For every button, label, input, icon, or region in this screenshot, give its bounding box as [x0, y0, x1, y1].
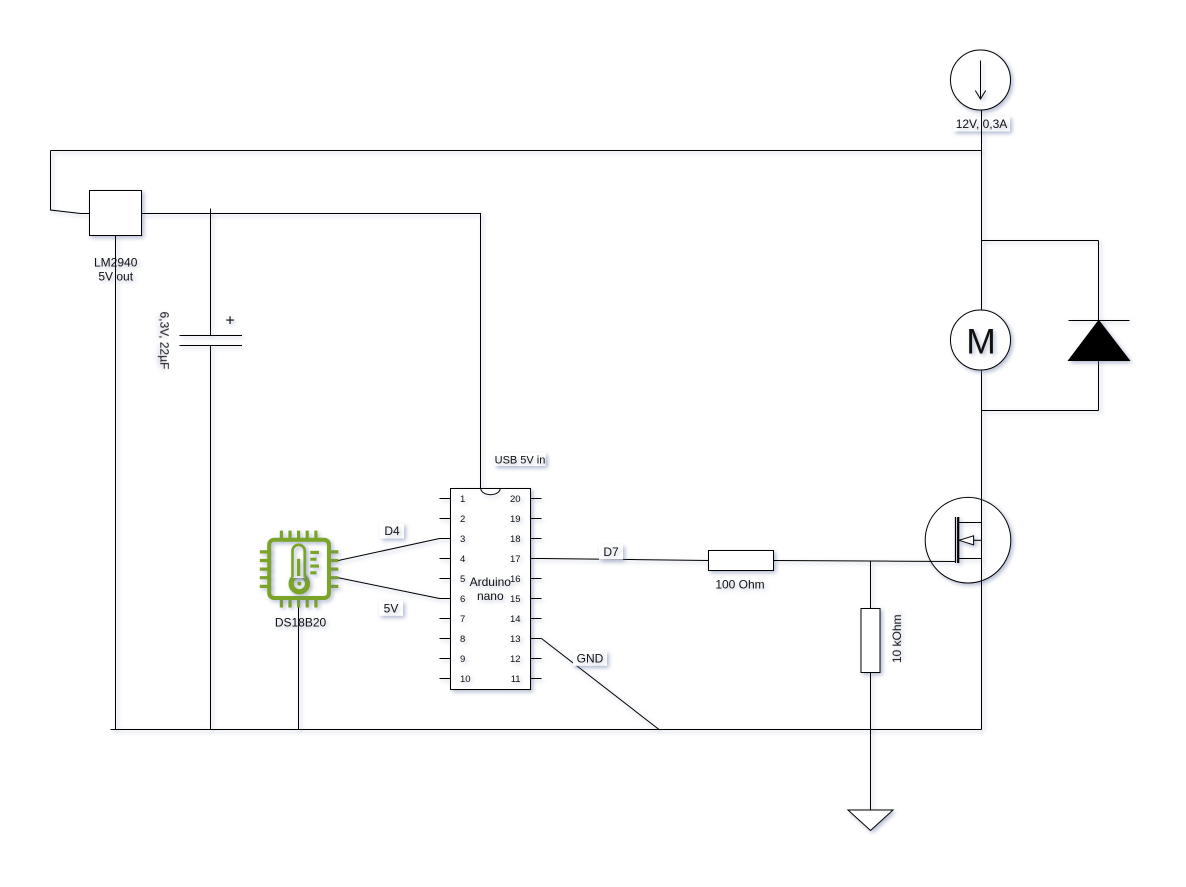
label USB 5V in [494, 453, 545, 467]
MOSFET body arrow [959, 536, 974, 545]
diode D1 cathode bar [1069, 320, 1130, 322]
pins right 11-20 [531, 499, 542, 679]
svg-text:13: 13 [510, 634, 521, 645]
svg-text:10 kOhm: 10 kOhm [890, 614, 904, 663]
wire regulator output to Arduino top [142, 214, 481, 489]
wire resistor to MOSFET gate [774, 561, 957, 562]
svg-text:8: 8 [460, 634, 465, 645]
wire motor loop bottom [982, 410, 1099, 412]
IC U1 Arduino nano body [451, 489, 531, 690]
chip body [269, 540, 329, 598]
wire DS18B20 ground drop [298, 608, 300, 730]
wire sensor vcc to pin 6 (5V) [338, 578, 439, 599]
svg-text:Arduino: Arduino [470, 575, 512, 589]
MOSFET gate bar [955, 517, 957, 563]
sensor DS18B20 icon [260, 531, 339, 608]
MOSFET source stub [958, 558, 981, 560]
wire left drop to regulator input [51, 151, 90, 214]
resistor R1 100 Ohm [709, 551, 774, 571]
svg-text:D4: D4 [384, 524, 400, 538]
label D4 [380, 524, 404, 539]
svg-text:12: 12 [510, 654, 521, 665]
MOSFET body stub [974, 539, 982, 541]
wire sensor data to pin 3 (D4) [338, 539, 439, 561]
wire main vertical 12V to motor [981, 110, 983, 310]
regulator LM2940 box [90, 191, 142, 236]
wire motor bottom through MOSFET to bottom rail [981, 371, 983, 730]
svg-text:6,3V, 22µF: 6,3V, 22µF [157, 312, 171, 370]
svg-text:10: 10 [460, 674, 471, 685]
thermometer mercury column [297, 559, 300, 576]
svg-text:19: 19 [510, 514, 521, 525]
pin numbers left [460, 494, 471, 685]
chip legs top [281, 531, 316, 540]
wire motor loop top [982, 240, 1099, 242]
svg-text:100 Ohm: 100 Ohm [715, 578, 764, 592]
svg-text:D7: D7 [603, 545, 619, 559]
wire regulator ground down to bottom rail [115, 236, 117, 730]
thermometer tube outline [293, 545, 305, 578]
svg-text:14: 14 [510, 614, 521, 625]
svg-text:16: 16 [510, 574, 521, 585]
MOSFET drain stub [958, 522, 981, 524]
svg-text:+: + [225, 313, 234, 330]
svg-text:11: 11 [511, 674, 521, 685]
diode D1 triangle [1069, 321, 1130, 361]
ground symbol [848, 810, 893, 831]
wire pulldown to ground symbol [870, 673, 872, 811]
MOSFET Q1 body circle [925, 497, 1011, 583]
svg-text:17: 17 [510, 554, 521, 565]
svg-text:5V: 5V [384, 602, 399, 616]
svg-text:4: 4 [460, 554, 465, 565]
wire pin17 to resistor (D7 net) [542, 559, 709, 561]
svg-text:15: 15 [510, 594, 521, 605]
thermometer tube interior [293, 545, 305, 578]
svg-text:9: 9 [460, 654, 465, 665]
svg-text:1: 1 [460, 494, 465, 505]
current source 12V supply [951, 50, 1011, 110]
wire capacitor top lead [210, 209, 212, 336]
label 5V [379, 601, 403, 616]
IC notch [481, 489, 500, 495]
wire pin13 to ground rail (GND net) [542, 639, 660, 730]
chip legs left [260, 552, 270, 587]
pins left 1-10 [440, 499, 451, 679]
motor M1 circle [951, 310, 1011, 370]
scale marks [310, 552, 319, 572]
chip legs right [329, 552, 339, 587]
svg-text:3: 3 [460, 534, 465, 545]
svg-text:5V out: 5V out [98, 270, 133, 284]
label 12V, 0,3A [953, 117, 1010, 132]
pin numbers right [510, 494, 521, 685]
wire capacitor bottom lead [210, 346, 212, 730]
label GND [573, 651, 607, 666]
svg-text:20: 20 [510, 494, 521, 505]
chip legs bottom [281, 598, 316, 608]
capacitor C1 plates [180, 335, 243, 337]
thermometer bulb dot [297, 582, 301, 586]
wire bottom ground rail [111, 729, 982, 731]
current source arrow [975, 61, 985, 100]
svg-text:7: 7 [460, 614, 465, 625]
svg-text:USB 5V in: USB 5V in [495, 454, 546, 466]
resistor R2 10 kOhm [861, 609, 880, 673]
wire diode branch vertical [1098, 241, 1100, 411]
svg-text:5: 5 [460, 574, 465, 585]
svg-text:6: 6 [460, 594, 465, 605]
svg-text:M: M [966, 322, 996, 362]
svg-text:2: 2 [460, 514, 465, 525]
wire top rail (12V) [51, 150, 982, 152]
svg-text:nano: nano [477, 589, 504, 603]
label D7 [599, 545, 623, 560]
svg-text:GND: GND [577, 652, 604, 666]
svg-text:18: 18 [510, 534, 521, 545]
MOSFET channel bar [957, 517, 959, 563]
svg-text:DS18B20: DS18B20 [275, 616, 327, 630]
wire junction to pulldown resistor [870, 561, 872, 609]
thermometer bulb [291, 575, 307, 591]
